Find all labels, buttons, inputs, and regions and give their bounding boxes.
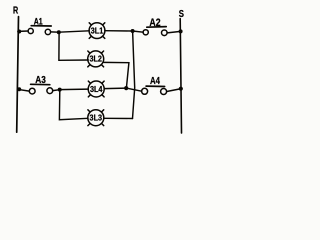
wire: contact A1 to node N1 [51, 31, 59, 33]
wire: node N2 to contact A2 [133, 31, 144, 32]
wire: R rail to contact A3 [17, 89, 29, 91]
svg-text:A4: A4 [150, 76, 160, 87]
junction dot N2 [131, 29, 135, 33]
wire: lamp 3L4 to node N4 [104, 87, 126, 90]
wire: contact A4 to S rail [167, 89, 180, 92]
wire: node N1 down to lamp 3L2 [59, 32, 88, 60]
junction dot: S rail, row 1 [179, 29, 183, 33]
contact A3 (NO) [29, 88, 35, 94]
junction dot: R rail, row 3 [17, 87, 21, 91]
wire: vertical from node N2 down through row 3 to lamp 3L3 row [133, 31, 135, 119]
junction dot: R rail, row 1 [17, 30, 21, 34]
svg-text:A1: A1 [34, 16, 43, 27]
lamp 3L1 [89, 23, 105, 39]
svg-text:A3: A3 [35, 75, 46, 86]
lamp 3L3 [88, 110, 104, 126]
junction dot N1 [57, 30, 61, 34]
junction dot: S rail, row 3 [179, 87, 183, 91]
contact A2 (NO) [143, 30, 148, 35]
contact A1 (NO) [28, 28, 33, 33]
junction dot N3 [58, 88, 62, 92]
wire: node N1 to lamp 3L1 [59, 31, 89, 32]
wire: lamp 3L2 right, down to row 3 [104, 62, 129, 88]
lamp 3L2 [88, 51, 104, 67]
right rail (S) [180, 19, 181, 133]
svg-text:3L2: 3L2 [89, 55, 102, 64]
svg-text:R: R [13, 5, 18, 17]
svg-text:3L4: 3L4 [90, 85, 103, 94]
wire: lamp 3L3 to vertical riser [104, 117, 133, 119]
svg-text:A2: A2 [149, 17, 160, 29]
svg-text:3L1: 3L1 [91, 26, 104, 35]
wire: node N4 to contact A4 [126, 88, 141, 91]
wire: R rail to contact A1 [18, 30, 28, 32]
svg-text:3L3: 3L3 [90, 114, 103, 123]
lamp 3L4 [88, 81, 104, 97]
wire: node N3 to lamp 3L4 [60, 88, 88, 91]
junction dot N4 [124, 86, 128, 90]
contact A4 (NO) [142, 88, 148, 94]
wire: node N3 down to lamp 3L3 [59, 90, 88, 120]
wire: contact A2 to S rail [167, 31, 181, 33]
left rail (R) [17, 17, 19, 133]
wire: lamp 3L1 to node N2 [105, 30, 133, 32]
wire: contact A3 to node N3 [53, 89, 60, 92]
